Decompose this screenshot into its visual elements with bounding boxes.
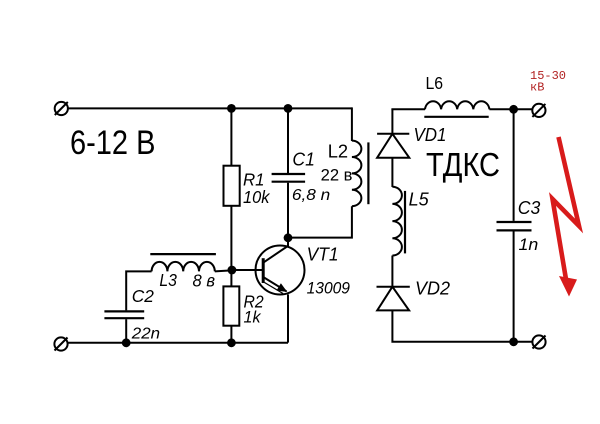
capacitor C1	[272, 174, 306, 182]
wire R2 to bottom rail	[230, 326, 232, 343]
svg-text:VT1: VT1	[307, 245, 339, 265]
node base junction	[228, 266, 237, 275]
capacitor C3	[497, 222, 532, 230]
wire rail to C1	[287, 108, 289, 173]
wire L6 to top-right terminal	[489, 108, 532, 110]
wire VD2 to bottom right rail	[392, 310, 532, 341]
inductor L3	[152, 262, 215, 272]
wire C2 up to L3	[126, 271, 151, 310]
terminal input top-left	[55, 102, 68, 115]
svg-text:1k: 1k	[244, 308, 262, 327]
wire C1 to collector node	[287, 183, 289, 238]
svg-text:8 в: 8 в	[193, 271, 216, 291]
node junction R2 bottom	[227, 338, 236, 347]
wire top rail	[68, 107, 352, 109]
node junction bottom right	[509, 337, 518, 346]
svg-text:кВ: кВ	[530, 80, 544, 94]
svg-text:1n: 1n	[519, 235, 539, 254]
node junction top R1	[227, 104, 236, 113]
wire L6 left	[392, 109, 425, 110]
node junction top right	[509, 105, 518, 114]
capacitor C2	[104, 311, 144, 318]
resistor R1	[224, 166, 240, 206]
svg-text:L2: L2	[328, 141, 348, 162]
svg-text:10k: 10k	[243, 187, 271, 207]
wire C3 stem top	[513, 109, 515, 221]
terminal output bottom-right	[532, 335, 545, 348]
wire bottom rail left	[68, 342, 288, 344]
node junction top C1	[284, 104, 293, 113]
svg-text:C1: C1	[292, 148, 315, 169]
wire VD1 to L5	[391, 158, 393, 187]
svg-text:6,8 n: 6,8 n	[292, 187, 330, 204]
svg-text:6-12 В: 6-12 В	[70, 124, 156, 162]
svg-text:L3: L3	[159, 270, 177, 290]
core bar L3	[150, 253, 216, 255]
terminal input bottom-left	[54, 337, 67, 350]
terminal output top-right	[532, 104, 545, 117]
wire L2 bottom	[288, 206, 352, 237]
node junction C2 bottom	[122, 338, 131, 347]
core bar L6	[424, 116, 488, 118]
svg-text:13009: 13009	[307, 280, 350, 298]
svg-text:C2: C2	[132, 286, 154, 306]
diode VD2	[377, 287, 410, 311]
wire VD1 branch top	[391, 109, 393, 134]
resistor R2	[223, 286, 239, 325]
inductor L2	[352, 141, 362, 207]
emitter arrowhead VT1	[277, 283, 288, 292]
svg-text:C3: C3	[518, 197, 541, 218]
svg-text:VD1: VD1	[414, 124, 447, 145]
wire R1 to base node	[230, 206, 232, 270]
wire L2 drop	[351, 107, 353, 141]
wire C2 stem bottom	[125, 319, 127, 343]
wire rail to R1	[230, 108, 232, 166]
transistor VT1	[256, 246, 305, 295]
node collector junction	[284, 233, 293, 242]
svg-text:VD2: VD2	[415, 278, 451, 299]
wire collector	[287, 238, 289, 247]
svg-text:22 в: 22 в	[321, 166, 353, 184]
core bar L2	[367, 142, 369, 204]
emitter double-stroke artifact	[265, 283, 284, 294]
core bar L5	[404, 191, 406, 254]
wire base node to R2	[230, 270, 232, 286]
svg-text:ТДКС: ТДКС	[426, 147, 500, 184]
wire C3 stem bottom	[513, 231, 515, 341]
diode VD1	[377, 134, 409, 158]
svg-text:L6: L6	[426, 73, 444, 93]
wire L5 to VD2	[391, 256, 393, 287]
inductor L5	[392, 187, 402, 256]
wire base	[231, 269, 262, 271]
wire emitter	[287, 294, 289, 342]
inductor L6	[425, 101, 489, 109]
svg-text:22n: 22n	[131, 325, 160, 342]
high voltage arrow	[553, 137, 580, 297]
svg-text:L5: L5	[409, 189, 430, 210]
wire L3 to base node	[215, 270, 232, 271]
